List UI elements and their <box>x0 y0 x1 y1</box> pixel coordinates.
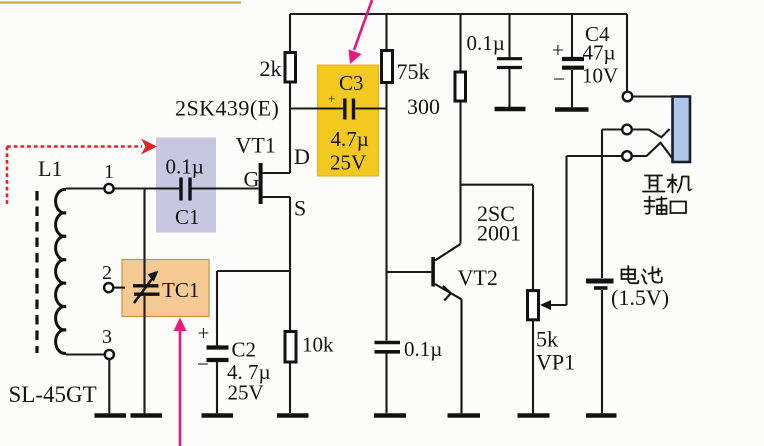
ground (C4) <box>555 107 589 112</box>
battery 1.5V <box>586 281 614 288</box>
svg-text:75k: 75k <box>397 59 430 84</box>
highlight box C1 <box>156 138 216 233</box>
wire: 2k bottom to VT1 drain node <box>289 82 291 173</box>
svg-text:4.7µ: 4.7µ <box>331 127 369 151</box>
ground (battery) <box>586 413 617 418</box>
capacitor C4 <box>562 59 584 68</box>
svg-text:2k: 2k <box>260 56 282 81</box>
ground (VT2 emitter) <box>448 413 481 418</box>
capacitor 0.1u (supply bypass) <box>497 59 522 68</box>
svg-text:+: + <box>198 321 210 345</box>
wire: rail drop to jack sleeve <box>626 14 628 92</box>
wire: jack ring contact left run <box>602 128 622 130</box>
svg-text:−: − <box>553 67 565 91</box>
wire: C4 bottom to mid ground <box>571 70 573 108</box>
transistor VT1 (FET) channel bar <box>259 163 263 204</box>
wire: rail to 2k R top <box>289 14 291 53</box>
wire: 10k bottom to ground <box>289 362 291 413</box>
svg-text:10V: 10V <box>582 64 618 88</box>
wire: 75k bottom through C3 node to VT2 base wire <box>385 83 387 272</box>
potentiometer VP1 body <box>528 291 539 320</box>
wire: rail to 0.1u top cap <box>508 14 510 57</box>
wire: C3 line right <box>356 107 387 109</box>
ground (0.1u emitter cap) <box>374 413 406 418</box>
svg-text:2001: 2001 <box>477 221 521 246</box>
svg-text:C1: C1 <box>175 205 200 229</box>
inductor core dashed line <box>35 191 38 353</box>
ground (TC1) <box>131 413 163 418</box>
ground (VP1) <box>518 413 550 418</box>
capacitor TC1 (trimmer) <box>133 278 160 304</box>
wire: battery - down to ground <box>601 290 603 413</box>
highlight box C3 <box>318 65 379 176</box>
svg-text:0.1µ: 0.1µ <box>467 31 505 55</box>
ground (0.1u supply cap) <box>495 107 526 112</box>
magenta pointer to TC1 <box>179 328 182 446</box>
wire: rail to C4 <box>571 14 573 57</box>
svg-text:2SK439(E): 2SK439(E) <box>175 96 279 121</box>
resistor 75k <box>382 51 393 83</box>
wire: main input run (L1 top to C1) <box>66 187 179 189</box>
capacitor C2 <box>207 348 229 361</box>
wire: VP1 column down <box>532 185 534 291</box>
wire: TC1 bottom to ground <box>143 296 145 413</box>
wire: C2 branch horizontal <box>217 270 290 272</box>
transistor VT2 <box>431 244 461 413</box>
svg-text:C3: C3 <box>339 71 364 95</box>
wire: VT1 source tap <box>262 196 290 198</box>
svg-text:SL-45GT: SL-45GT <box>9 382 97 407</box>
svg-text:S: S <box>294 196 306 221</box>
resistor 300 <box>455 72 466 101</box>
svg-text:5k: 5k <box>536 327 558 352</box>
svg-text:0.1µ: 0.1µ <box>404 337 442 361</box>
label 耳机 (headphone) hand-drawn <box>643 175 691 193</box>
VT2 emitter arrowhead <box>443 286 451 301</box>
svg-text:300: 300 <box>407 94 440 119</box>
svg-text:+: + <box>328 91 335 106</box>
node terminal 2 <box>104 283 113 292</box>
wire: coil bottom run to terminal 3 <box>66 353 104 355</box>
wire: collector node across to VP1 column <box>461 184 534 186</box>
potentiometer VP1 wiper arrow <box>540 300 551 310</box>
node terminal 3 <box>105 350 114 359</box>
svg-text:3: 3 <box>102 326 112 348</box>
wire: ring node down to battery + <box>601 130 603 279</box>
wire: VP1 bottom to ground <box>532 320 534 413</box>
wire: jack tip contact left run <box>567 155 623 157</box>
svg-text:10k: 10k <box>302 333 334 357</box>
ground (C2) <box>202 413 234 418</box>
svg-text:TC1: TC1 <box>162 278 199 302</box>
wire: C3 line left <box>290 107 343 109</box>
wire: VT2 base wire <box>387 271 432 273</box>
wire: base node down to 0.1u cap <box>385 272 387 341</box>
label 电池 (battery) hand-drawn <box>622 266 662 284</box>
wire: 300 R bottom down to VT2 collector <box>459 101 461 244</box>
resistor 2k <box>285 53 296 83</box>
svg-text:47µ: 47µ <box>583 41 616 65</box>
wire: source node down to 10k top <box>289 197 291 332</box>
wire: rail to 75k top <box>385 14 387 51</box>
magenta pointer to C3 <box>354 0 372 50</box>
svg-text:25V: 25V <box>330 151 366 175</box>
highlight box TC1 <box>122 260 209 317</box>
inductor L1 <box>56 189 66 353</box>
wire: rail to 300 R top <box>459 14 461 72</box>
wire: top supply rail <box>290 13 627 15</box>
capacitor C1 <box>181 178 190 201</box>
decorative tan line top-left <box>0 1 241 3</box>
node terminal 1 <box>104 184 113 193</box>
svg-text:+: + <box>552 38 564 62</box>
wire: C2 bottom to ground <box>216 362 218 413</box>
wire: VP1 wiper horizontal <box>549 304 567 306</box>
resistor 10k <box>285 332 296 363</box>
svg-text:VT2: VT2 <box>458 265 498 290</box>
wire: wiper riser up to jack tip wire <box>565 156 567 305</box>
ground (L1 terminal 3) <box>95 413 127 418</box>
capacitor C3 <box>345 99 354 120</box>
wire: junction down to TC1 <box>143 189 145 285</box>
svg-text:(1.5V): (1.5V) <box>611 285 669 310</box>
svg-text:C2: C2 <box>232 338 257 362</box>
svg-text:−: − <box>197 352 209 376</box>
svg-text:25V: 25V <box>228 381 264 405</box>
wire: terminal 3 down to ground <box>108 360 110 414</box>
wire: jack sleeve to jack body <box>633 95 673 97</box>
node jack tip terminal <box>622 151 632 161</box>
ground (10k) <box>277 413 309 418</box>
svg-text:VT1: VT1 <box>236 133 276 158</box>
node jack ring terminal <box>622 125 632 135</box>
wire: 0.1u top cap to mid ground <box>508 69 510 108</box>
wire: C1 to VT1 gate <box>192 187 259 189</box>
svg-text:L1: L1 <box>38 156 62 181</box>
svg-text:VP1: VP1 <box>536 350 575 375</box>
red dashed pointer to C1 <box>7 147 142 205</box>
svg-text:D: D <box>294 144 310 169</box>
svg-text:0.1µ: 0.1µ <box>166 155 204 179</box>
wire: jack tip contact spring <box>632 143 672 159</box>
headphone jack body <box>673 97 691 163</box>
label 插口 (jack) hand-drawn <box>645 197 687 215</box>
svg-text:1: 1 <box>104 161 114 183</box>
wire: jack ring contact spring <box>632 129 670 137</box>
wire: C2 branch down to C2 plate <box>216 271 218 346</box>
wire: 0.1u cap bottom to ground <box>385 354 387 414</box>
svg-text:2: 2 <box>102 262 112 284</box>
wire: coil tap 2 stub <box>114 287 125 289</box>
node jack sleeve terminal <box>623 92 633 102</box>
capacitor 0.1u (emitter bypass) <box>375 343 401 352</box>
wire: VT1 drain tap <box>262 172 290 174</box>
svg-text:G: G <box>244 167 260 192</box>
